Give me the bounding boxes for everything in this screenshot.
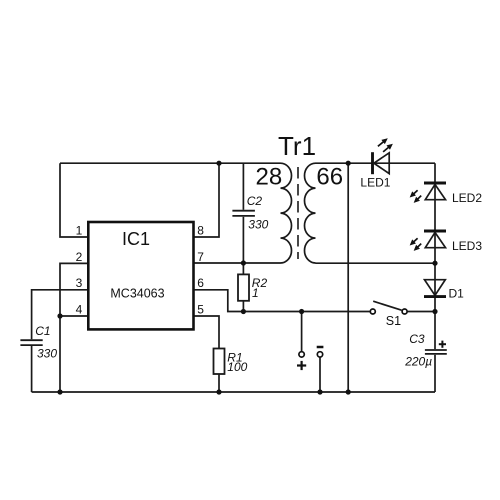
svg-text:28: 28 [256, 163, 283, 190]
svg-text:Tr1: Tr1 [278, 131, 316, 161]
svg-text:330: 330 [248, 217, 268, 231]
svg-text:LED2: LED2 [452, 191, 482, 205]
svg-text:6: 6 [197, 276, 204, 290]
svg-text:MC34063: MC34063 [110, 287, 164, 301]
svg-text:D1: D1 [449, 287, 465, 301]
svg-text:C2: C2 [247, 194, 263, 208]
svg-text:5: 5 [197, 302, 204, 316]
svg-text:2: 2 [76, 250, 83, 264]
svg-text:S1: S1 [386, 314, 401, 328]
svg-text:220µ: 220µ [404, 355, 432, 369]
svg-text:3: 3 [76, 276, 83, 290]
svg-text:IC1: IC1 [122, 229, 150, 249]
svg-text:LED3: LED3 [452, 239, 482, 253]
svg-text:C1: C1 [35, 324, 50, 338]
svg-text:C3: C3 [409, 332, 425, 346]
svg-text:1: 1 [252, 286, 259, 300]
svg-text:100: 100 [227, 360, 247, 374]
svg-text:1: 1 [76, 223, 83, 237]
svg-text:330: 330 [37, 347, 57, 361]
svg-text:4: 4 [76, 302, 83, 316]
svg-text:66: 66 [316, 163, 343, 190]
svg-text:8: 8 [197, 223, 204, 237]
svg-text:LED1: LED1 [360, 176, 390, 190]
svg-text:7: 7 [197, 250, 204, 264]
